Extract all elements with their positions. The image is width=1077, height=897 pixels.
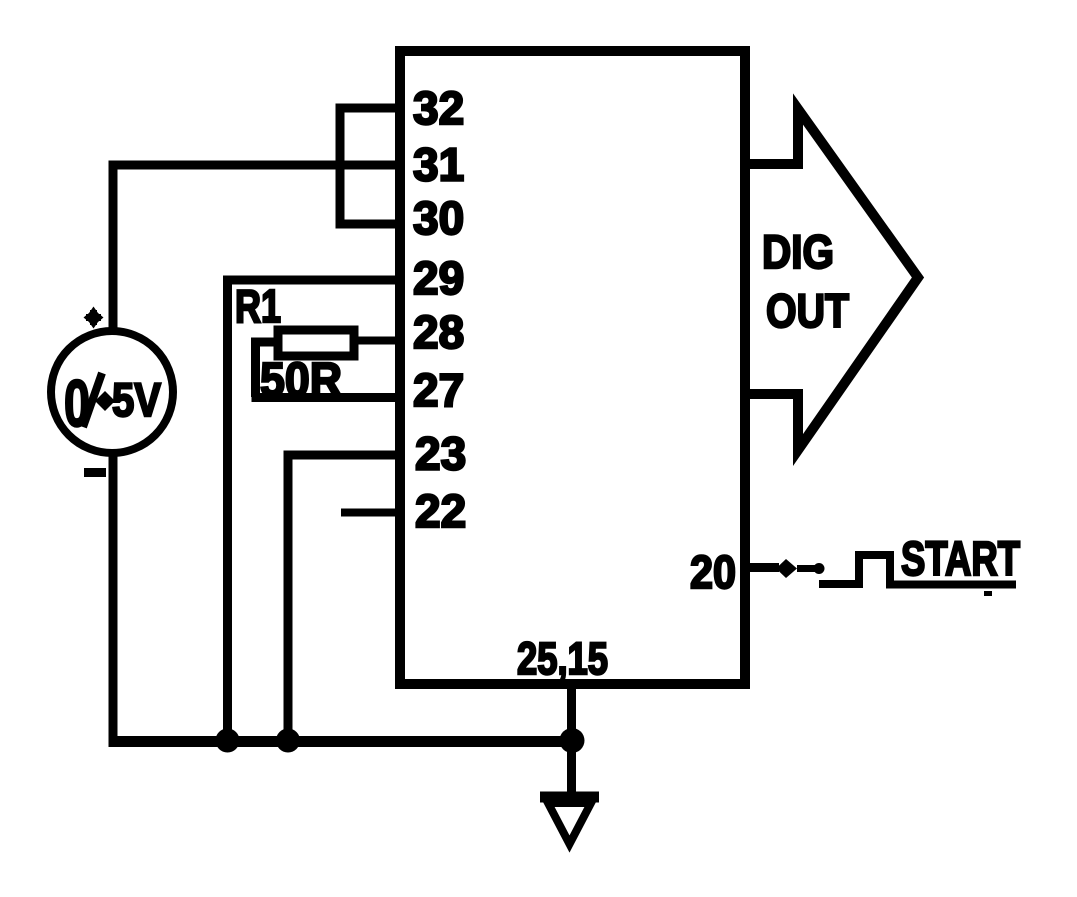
svg-text:27: 27 — [413, 364, 464, 416]
svg-text:29: 29 — [413, 252, 464, 304]
svg-text:DIG: DIG — [762, 225, 834, 278]
svg-text:R1: R1 — [235, 280, 281, 332]
svg-text:START: START — [901, 533, 1020, 586]
svg-text:30: 30 — [413, 192, 464, 244]
svg-text:20: 20 — [690, 546, 736, 598]
svg-text:31: 31 — [413, 139, 464, 191]
svg-text:25,15: 25,15 — [517, 633, 608, 684]
svg-text:5V: 5V — [112, 373, 162, 426]
svg-text:OUT: OUT — [766, 284, 849, 337]
svg-text:0: 0 — [64, 366, 90, 440]
svg-text:32: 32 — [413, 82, 464, 134]
svg-text:23: 23 — [415, 428, 466, 480]
svg-text:22: 22 — [415, 485, 466, 537]
svg-text:50R: 50R — [260, 354, 342, 407]
svg-text:28: 28 — [413, 306, 464, 358]
